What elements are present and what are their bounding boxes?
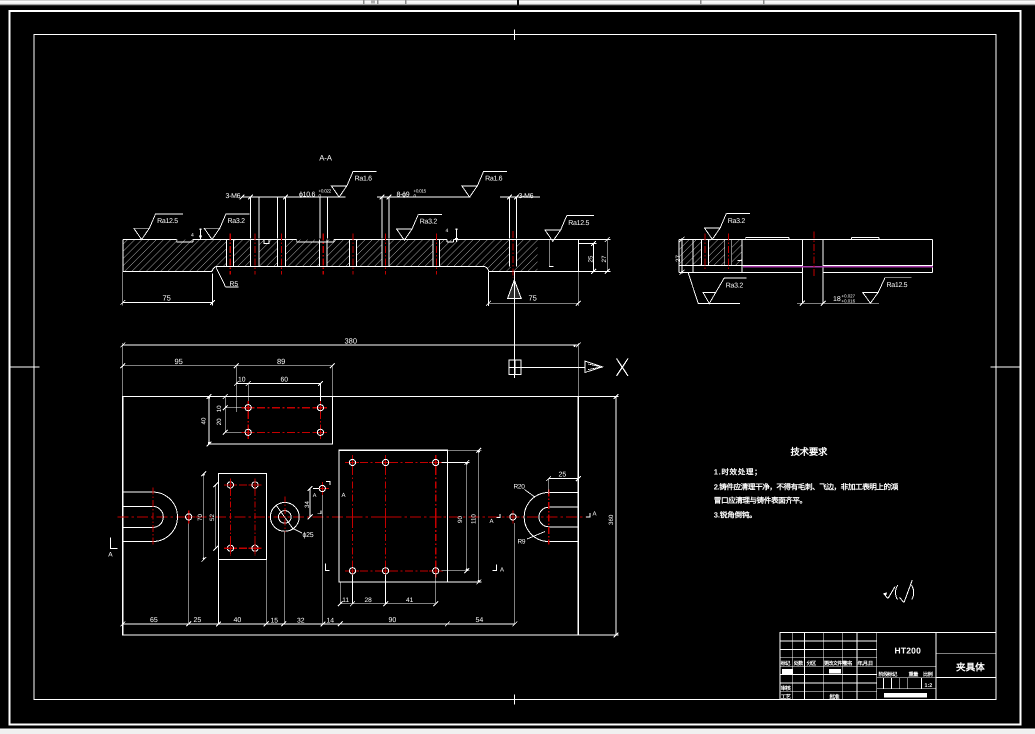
svg-text:冒口应清理与铸件表面齐平。: 冒口应清理与铸件表面齐平。 [714,496,807,505]
svg-text:Ra3.2: Ra3.2 [726,283,744,290]
svg-text:27: 27 [601,255,608,262]
svg-text:54: 54 [476,617,484,624]
svg-text:标记: 标记 [780,660,791,667]
svg-text:380: 380 [345,337,358,346]
svg-text:R20: R20 [514,484,526,491]
svg-text:10: 10 [216,405,223,412]
svg-text:10: 10 [238,377,246,384]
svg-text:75: 75 [529,294,537,303]
svg-text:A: A [593,511,597,518]
svg-text:70: 70 [197,514,204,521]
svg-text:ϕ10.6: ϕ10.6 [299,191,315,199]
svg-text:60: 60 [281,377,289,384]
svg-text:3.锐角倒钝。: 3.锐角倒钝。 [714,511,757,520]
svg-text:3-M6: 3-M6 [226,193,241,200]
svg-text:Ra3.2: Ra3.2 [228,218,246,225]
svg-text:A: A [342,492,346,499]
svg-text:40: 40 [201,417,208,424]
svg-text:R9: R9 [518,539,526,546]
svg-text:1:2: 1:2 [925,683,933,689]
svg-text:4: 4 [191,233,194,239]
svg-text:A: A [490,518,494,525]
svg-text:18: 18 [833,296,841,303]
svg-text:A: A [500,567,504,574]
svg-text:25: 25 [559,472,567,479]
svg-text:批准: 批准 [829,694,840,701]
svg-text:27: 27 [675,255,682,262]
svg-text:95: 95 [175,357,183,366]
svg-text:89: 89 [277,357,285,366]
svg-text:41: 41 [406,597,414,604]
svg-text:2.铸件应清理干净，不得有毛刺、飞边，非加工表明上的澒: 2.铸件应清理干净，不得有毛刺、飞边，非加工表明上的澒 [714,483,899,492]
svg-text:ϕ25: ϕ25 [303,531,314,539]
svg-text:签名: 签名 [842,660,852,667]
svg-text:处数: 处数 [793,660,804,667]
svg-text:重量: 重量 [909,671,920,678]
svg-text:8-ϕ9: 8-ϕ9 [397,191,410,199]
svg-text:3-M6: 3-M6 [519,193,534,200]
svg-text:32: 32 [297,618,305,625]
svg-text:Ra1.6: Ra1.6 [355,176,373,183]
svg-text:R5: R5 [230,281,239,288]
svg-text:360: 360 [608,514,615,525]
svg-text:Ra12.5: Ra12.5 [887,282,908,289]
svg-text:0: 0 [414,194,417,199]
svg-text:75: 75 [163,294,171,303]
svg-text:审核: 审核 [781,685,792,692]
svg-text:阶段标记: 阶段标记 [879,671,899,678]
svg-text:分区: 分区 [807,660,817,667]
svg-text:40: 40 [234,617,242,624]
svg-text:A-A: A-A [319,154,332,163]
svg-text:25: 25 [194,617,202,624]
svg-text:1.时效处理；: 1.时效处理； [714,468,763,477]
svg-text:Ra3.2: Ra3.2 [420,219,438,226]
svg-text:夹具体: 夹具体 [956,662,985,674]
svg-text:65: 65 [150,617,158,624]
svg-text:HT200: HT200 [895,646,922,656]
svg-text:比例: 比例 [923,671,933,678]
svg-text:Ra1.6: Ra1.6 [485,176,503,183]
svg-text:52: 52 [209,514,216,521]
svg-text:11: 11 [342,597,349,604]
svg-text:25: 25 [588,255,595,262]
svg-text:Ra3.2: Ra3.2 [728,218,746,225]
svg-text:A: A [313,493,317,499]
svg-text:Ra12.5: Ra12.5 [157,218,178,225]
svg-text:14: 14 [327,618,335,625]
svg-text:90: 90 [389,617,397,624]
svg-text:0: 0 [319,194,322,199]
svg-text:15: 15 [271,618,279,625]
svg-text:Ra12.5: Ra12.5 [568,220,589,227]
svg-text:4: 4 [446,228,449,234]
svg-text:A: A [108,552,113,559]
svg-text:34: 34 [304,501,311,508]
svg-text:20: 20 [216,418,223,425]
svg-text:技术要求: 技术要求 [791,446,829,457]
svg-text:+0.016: +0.016 [842,299,856,304]
svg-text:110: 110 [470,514,477,524]
svg-text:年,月,日: 年,月,日 [858,660,873,667]
svg-text:工艺: 工艺 [781,694,792,701]
svg-text:90: 90 [457,516,464,523]
svg-text:28: 28 [365,597,373,604]
